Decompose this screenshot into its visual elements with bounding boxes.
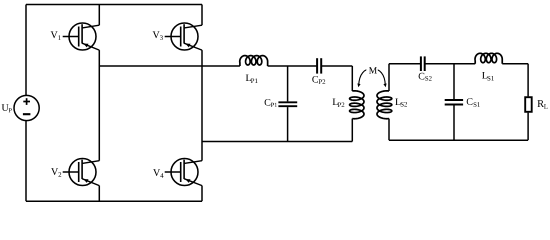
resistor RL [525, 97, 532, 112]
label RL [537, 100, 547, 109]
transistor V2 [63, 159, 100, 186]
inductor LS2 (secondary coil) [377, 91, 392, 119]
wire: LP2 to bottom tank rail [351, 119, 353, 142]
wire: CP1 to bottom tank rail [287, 107, 289, 141]
capacitor CS2 [421, 56, 425, 71]
transistor V3 [165, 23, 202, 50]
label CS2 [419, 73, 432, 81]
capacitor CS1 [445, 100, 463, 105]
inductor LP1 [240, 56, 268, 66]
wire: left rail lower [25, 121, 27, 202]
label LS1 [482, 72, 494, 81]
label CP2 [312, 76, 325, 84]
wire: CS2 to CS1 node [426, 63, 476, 65]
label V2 [51, 168, 61, 177]
mutual inductance M arrow [359, 69, 386, 86]
label V4 [153, 169, 163, 178]
label UP [2, 104, 12, 112]
wire: CP2 to LP2 corner [321, 65, 352, 67]
label LP2 [333, 99, 345, 108]
label M [369, 67, 377, 73]
wire: V3 drain to top rail [201, 5, 203, 26]
wire: V4 source to bottom rail [201, 186, 203, 202]
inductor LP2 (primary coil) [350, 91, 364, 119]
transistor V4 [165, 159, 202, 186]
wire: bottom tank rail (primary) [202, 141, 352, 143]
wire: right leg midpoint [201, 50, 203, 161]
source UP [14, 95, 39, 120]
wire: left rail upper [25, 5, 27, 96]
wire: left leg midpoint [98, 50, 100, 161]
label V1 [51, 31, 61, 40]
wire: LP1 to CP1 node [268, 65, 317, 67]
wire: LS2 top up to rail [388, 64, 390, 91]
node: CP1 junction / wire down [287, 66, 289, 101]
wire: V1 drain to top rail [98, 5, 100, 26]
label CP1 [265, 99, 277, 107]
wire: bridge output A to LP1 [99, 65, 240, 67]
wire: V2 source to bottom rail [98, 186, 100, 202]
capacitor CP2 [317, 58, 321, 73]
wire: RL to bottom rail [527, 113, 529, 141]
node: CS1 junction / wire down [453, 64, 455, 99]
transistor V1 [63, 23, 100, 50]
wire: top rail [26, 4, 202, 6]
label CS1 [467, 98, 480, 107]
wire: down to RL [527, 64, 529, 97]
wire: down to LP2 [351, 66, 353, 91]
label LP1 [246, 75, 258, 84]
wire: CS1 to bottom rail [453, 105, 455, 140]
inductor LS1 [475, 53, 502, 63]
wire: LS1 to RL corner [502, 63, 528, 65]
label V3 [153, 31, 163, 40]
wire: secondary bottom rail [389, 139, 528, 141]
capacitor CP1 [278, 102, 297, 106]
wire: secondary top rail to CS2 [389, 63, 420, 65]
arrowhead right [383, 83, 386, 87]
wire: bottom rail [26, 200, 202, 202]
arrowhead left [357, 83, 360, 87]
wire: LS2 to secondary bottom rail [388, 119, 390, 141]
label LS2 [395, 99, 407, 107]
